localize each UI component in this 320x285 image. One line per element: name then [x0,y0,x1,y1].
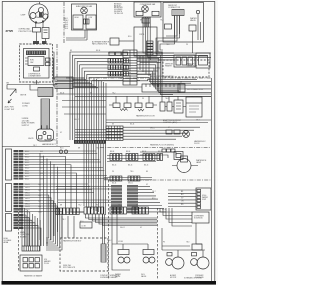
svg-text:BU-15: BU-15 [144,165,148,167]
connector group 1 y154 [110,154,112,161]
wires clusters to fuse box [62,216,74,238]
bottom connector cluster b [110,207,113,214]
svg-text:GY: GY [157,68,159,70]
wires to heater [103,214,105,244]
evaporator fan box [72,4,97,30]
compressor box small rects [46,58,51,61]
connector group 2 y154 [126,154,128,161]
horizontal divider right y147 [100,147,211,149]
svg-text:CONDENSER FAN: CONDENSER FAN [140,3,156,6]
control board bracket middle [6,184,12,212]
connector run y176 [110,176,113,181]
svg-text:WTR TUBE HTR: WTR TUBE HTR [63,267,76,269]
horizontal divider right y180 [108,179,211,181]
control board bracket upper [6,149,12,180]
svg-text:YE YELLOW: YE YELLOW [114,13,123,15]
svg-text:HARNESS-FZR DOOR: HARNESS-FZR DOOR [136,115,155,118]
bottom connector cluster c [132,207,135,214]
ladder wires right staircase [137,52,211,97]
wires to lamp [140,152,176,158]
wire ground to plug connector [30,85,38,91]
svg-text:OR-7: OR-7 [120,78,124,80]
svg-text:CONNECTOR: CONNECTOR [168,7,181,9]
svg-text:HARNESS-FC DOOR (SWING): HARNESS-FC DOOR (SWING) [150,144,174,147]
upper bus wires [108,53,211,74]
svg-text:GY: GY [168,127,170,129]
power cord cable [41,99,50,129]
main vertical wire bus upper [69,74,71,140]
compressor compartment outer box [20,44,53,82]
svg-text:DISPENSER CABINET: DISPENSER CABINET [100,276,118,279]
bus connector small cluster [109,52,115,55]
svg-text:YE-2: YE-2 [108,240,112,242]
dispenser box [192,212,209,223]
compressor inlet connectors [33,41,39,44]
svg-text:J1-5: J1-5 [38,195,41,197]
svg-text:TN-9: TN-9 [130,171,133,173]
svg-text:BK-12: BK-12 [25,170,29,172]
svg-text:WH-12: WH-12 [146,51,151,53]
svg-text:PK: PK [186,44,188,46]
wire overload down [37,32,46,44]
compressor terminal marks [35,22,37,24]
compressor terminal bar [26,51,46,56]
svg-text:WH-21: WH-21 [25,190,30,192]
power plug [37,129,54,141]
svg-text:GN/YE: GN/YE [20,95,27,97]
svg-text:TN-9: TN-9 [186,242,189,244]
bus dark connector bar [74,140,106,144]
terminal strip upper wires [23,150,96,152]
damper inner connector strip [147,41,154,43]
run capacitor box [28,57,44,66]
svg-text:GY: GY [146,184,148,186]
wires bus to adc [162,96,197,102]
svg-text:YE-2: YE-2 [160,20,164,22]
svg-text:WH-21: WH-21 [25,201,30,203]
svg-text:WH WHITE: WH WHITE [114,11,122,13]
water valve solenoid symbol [118,250,129,255]
ground wire GN/YE horizontal [7,84,57,86]
svg-text:BK-34: BK-34 [110,151,114,153]
compressor common winding circle [43,14,48,19]
compressor run winding circle [30,13,36,19]
bottom title bar [2,281,217,285]
defrost plug wire staircase [160,16,175,51]
svg-text:TN-9: TN-9 [118,205,121,207]
svg-text:PK: PK [96,205,98,207]
wires to right motors [162,223,205,257]
water valve small box [189,25,196,31]
long harness box [142,84,180,92]
terminal strip third [14,214,19,216]
svg-text:CORD: CORD [22,105,28,107]
right bus connector assembly [174,55,195,67]
adaptive defrost boxes [160,102,165,111]
wires compressor to junction [53,52,56,86]
svg-text:BR BROWN: BR BROWN [114,7,123,9]
svg-text:TN-9: TN-9 [165,98,168,100]
svg-text:PROTECTOR: PROTECTOR [19,31,33,33]
svg-text:BK-12: BK-12 [25,162,29,164]
dispenser lamp connector boxes [162,149,166,152]
svg-text:SOLENOID: SOLENOID [194,218,204,220]
ladder staircase wires left [70,52,123,74]
water ice lamp bulb [181,156,188,162]
svg-text:HARNESS ICE MAKER: HARNESS ICE MAKER [24,275,43,278]
junction connector row lower [55,84,73,89]
svg-text:WH-21: WH-21 [25,195,30,197]
svg-text:RD-5: RD-5 [152,198,156,200]
svg-text:BOARD: BOARD [20,235,27,238]
defrost small box left [165,24,172,29]
aux switch arrow [8,99,12,103]
svg-text:WH-12: WH-12 [128,183,133,185]
vertical dashed divider x157 bottom [157,208,159,280]
svg-text:-NO CONNECTION: -NO CONNECTION [187,89,204,91]
bottom cluster wires [85,214,157,218]
svg-text:SUPPLY: SUPPLY [22,125,30,127]
bus crossing horizontals [62,101,106,115]
svg-text:OR-7: OR-7 [33,145,37,147]
adc big box [186,97,202,117]
svg-text:BK-12: BK-12 [25,168,29,170]
svg-text:J2-1: J2-1 [40,151,43,153]
svg-text:BK-12: BK-12 [25,151,29,153]
wire compartment to ground bus [36,80,38,85]
svg-text:RD-5: RD-5 [150,78,154,80]
svg-text:YE-3: YE-3 [65,22,69,24]
main harness ladder connector [123,50,137,85]
svg-text:CNTRL: CNTRL [139,34,145,36]
svg-text:J1-3: J1-3 [38,190,41,192]
svg-text:YE-2: YE-2 [112,93,116,95]
svg-text:WH-12: WH-12 [74,119,79,121]
icemaker wire bundle [21,206,23,246]
junction fanout right [73,77,84,79]
svg-text:LIGHT SW: LIGHT SW [5,109,15,111]
svg-text:BU-15: BU-15 [112,165,116,167]
condenser fan motor circle [142,6,149,13]
svg-text:LAMP: LAMP [196,161,202,164]
aux switch bracket [7,85,16,97]
compressor motor circle CMP [29,4,48,23]
svg-text:BK: BK [90,93,92,95]
dispenser connector block [196,188,211,210]
svg-text:J1-1: J1-1 [38,184,41,186]
condenser fan terminal boxes [136,11,143,15]
svg-text:BK: BK [136,205,138,207]
svg-text:WH-12: WH-12 [120,227,125,229]
svg-text:YE-2: YE-2 [78,205,82,207]
upper connector rows x110 [108,59,110,64]
svg-text:BK: BK [146,171,148,173]
svg-text:BU BLUE: BU BLUE [114,5,121,7]
svg-text:OR-7: OR-7 [62,219,66,221]
connector group 4 y154 [157,154,159,161]
svg-text:WH-21: WH-21 [25,187,30,189]
strip connector wires [138,185,150,187]
svg-text:VALVE: VALVE [190,19,197,22]
page frame border [2,2,215,282]
vertical dashed divider x18 icemaker [18,208,20,272]
svg-text:WH-21: WH-21 [25,192,30,194]
vertical dash-dot divider mid [56,44,58,146]
compressor box tick marks [25,58,28,64]
refrigerator bus wires [57,81,211,97]
evaporator fan HIGH sub-box [73,15,83,29]
svg-text:GN-4: GN-4 [65,24,69,26]
wires into dispenser block [168,189,196,191]
svg-text:TN-9: TN-9 [166,44,169,46]
svg-text:COMPARTMENT: COMPARTMENT [28,75,41,78]
svg-text:L1 BK: L1 BK [118,241,124,243]
mid bus wires y120 [106,120,211,123]
svg-text:PK: PK [163,242,165,244]
wires into dark bar [75,129,106,131]
vertical strip connectors right [127,185,138,188]
svg-text:BU-5: BU-5 [65,26,69,28]
svg-text:HEATER: HEATER [165,65,172,68]
defrost thermostat dashed box [163,60,209,77]
svg-text:HARNESS-MCT: HARNESS-MCT [44,139,58,142]
mid cluster wires right [123,126,200,128]
svg-text:HARNESS-FUSE MCT: HARNESS-FUSE MCT [63,240,82,243]
terminal strip lower [14,183,19,185]
svg-text:RD-5: RD-5 [128,36,132,38]
vertical dashed divider x108 lower [108,180,110,280]
wire evap fan leads down [85,30,87,40]
svg-text:GY: GY [140,227,142,229]
svg-text:GY: GY [60,132,62,134]
svg-text:RD-5: RD-5 [60,148,64,150]
svg-text:BU-34: BU-34 [130,124,134,126]
svg-text:J2-9: J2-9 [40,173,43,175]
cluster bus y156 [107,156,160,162]
svg-text:WH-2: WH-2 [65,20,69,22]
power cord connector hatched [38,88,53,97]
svg-text:PK: PK [112,171,114,173]
mid right lamp circle [183,131,190,138]
aux solenoid symbol [143,250,154,255]
ice motor circles [197,257,209,269]
svg-text:BK-1: BK-1 [65,18,69,20]
junction rows separator [55,82,73,84]
bottom connector cluster a [84,207,87,214]
evaporator fan motor circle [81,7,88,14]
connector group 3 y154 [143,154,145,161]
defrost bottom bend [164,36,178,38]
svg-text:OR-7: OR-7 [196,120,200,122]
svg-text:BK: BK [112,124,114,126]
vertical dash-dot divider top [63,2,65,44]
svg-text:J1-9: J1-9 [38,206,41,208]
right vertical wire bundle [143,17,174,53]
svg-text:WH-21: WH-21 [25,198,30,200]
svg-text:YE-2: YE-2 [96,148,100,150]
terminal strip third wires [23,215,26,246]
wire condenser fan down [144,23,148,27]
compressor start winding circle [38,7,43,12]
svg-text:WH-21: WH-21 [25,203,30,205]
defrost connector outer box [163,3,204,43]
svg-text:PK: PK [142,98,144,100]
wires to middle motors [112,214,148,270]
svg-text:BK-12: BK-12 [25,157,29,159]
right bus big connector [196,53,210,68]
svg-text:J2-5: J2-5 [40,162,43,164]
fzr door switch symbols [113,103,120,108]
svg-text:WH-21: WH-21 [25,206,30,208]
harness fuse mct dashed box [60,238,108,271]
svg-text:WH-12: WH-12 [150,128,155,130]
main vertical wire bus lower [83,144,85,206]
svg-text:PLUG: PLUG [44,263,49,265]
evaporator fan LOW sub-box [86,15,96,29]
water valve small circle [196,10,199,13]
wire evap leads bend left [66,38,87,40]
overload protector box [33,28,41,33]
circles right of strip [59,150,62,153]
defrost right wire [198,14,201,40]
svg-text:37725: 37725 [6,29,14,33]
water tube heater bar [101,244,106,262]
svg-text:BU-34: BU-34 [162,209,166,211]
horizontal divider left y146 [3,146,71,148]
svg-text:THERMOSTAT: THERMOSTAT [186,65,197,68]
svg-text:BU-34: BU-34 [112,183,116,185]
svg-text:GN GREEN: GN GREEN [114,9,122,11]
svg-text:BK-12: BK-12 [25,176,29,178]
svg-text:BU-34: BU-34 [96,50,100,52]
svg-text:BK-12: BK-12 [25,173,29,175]
long horizontals y186-204 [56,187,111,203]
svg-text:CMP: CMP [21,15,26,17]
left aux box [110,38,119,45]
svg-text:BK-12: BK-12 [25,179,29,181]
water ice lamp bracket [174,152,183,160]
svg-text:BU-34: BU-34 [60,93,64,95]
horizontal divider right y78 [66,77,211,79]
damper control box [134,27,157,56]
svg-text:OR-7: OR-7 [152,191,156,193]
defrost wires down [175,16,180,39]
svg-text:HARNESS-REFRIGERATOR: HARNESS-REFRIGERATOR [150,75,174,78]
wires damper box down [140,56,149,76]
condenser fan box [134,2,161,17]
svg-text:BK-34: BK-34 [126,151,130,153]
compressor winding links [36,11,45,18]
terminal strip upper [14,150,19,152]
svg-text:BK-12: BK-12 [25,154,29,156]
svg-text:BK-34: BK-34 [158,151,162,153]
svg-text:WH-21: WH-21 [25,184,30,186]
compressor compartment inner box [24,49,50,79]
icemaker plug box [20,255,42,271]
right relay box [192,244,202,250]
wire compressor to overload [36,23,43,28]
svg-text:BK-34: BK-34 [142,151,146,153]
svg-text:RD-5: RD-5 [80,221,84,223]
svg-text:J2-3: J2-3 [40,157,43,159]
svg-text:EVAPORATOR FAN: EVAPORATOR FAN [76,5,93,8]
bottom connector cluster left group [56,208,59,215]
svg-text:VALVE: VALVE [141,275,147,278]
wires bus to door switches [116,96,149,103]
stepped wires to dispenser [160,208,192,212]
mid small boxes right [166,130,172,134]
svg-text:RD-6: RD-6 [65,28,69,30]
evaporator fan center connector [84,19,90,24]
svg-text:GN/YE: GN/YE [28,138,34,140]
svg-text:BK: BK [70,50,72,52]
junction connector row upper [55,77,73,82]
svg-text:J2-7: J2-7 [40,168,43,170]
icemaker connector hatched [22,246,40,251]
svg-text:BK-12: BK-12 [25,159,29,161]
right inner section border [210,78,212,281]
condenser fan connector below [142,18,150,23]
defrost connector plug hatched [172,10,184,16]
terminal strip lower wires [23,183,88,185]
right motor wire connectors [167,253,172,256]
mid cluster rows [106,126,123,128]
svg-text:BK-12: BK-12 [25,165,29,167]
svg-text:FAN CONNECTION: FAN CONNECTION [92,43,108,46]
strip crossing drops [40,153,58,246]
fzr door zigzag [120,109,144,112]
svg-text:BU-15: BU-15 [128,165,132,167]
L1 junction box [80,222,92,228]
control board bracket lower [6,214,12,232]
svg-text:HARNESS MCT: HARNESS MCT [42,143,57,146]
auger motor circles [172,257,184,269]
start capacitor box [42,28,49,39]
vertical strip connectors left [111,185,122,188]
compressor small box below cap [34,67,40,71]
svg-text:DOOR: DOOR [194,143,200,145]
svg-text:J1-7: J1-7 [38,201,41,203]
svg-text:MOTOR: MOTOR [170,277,177,279]
